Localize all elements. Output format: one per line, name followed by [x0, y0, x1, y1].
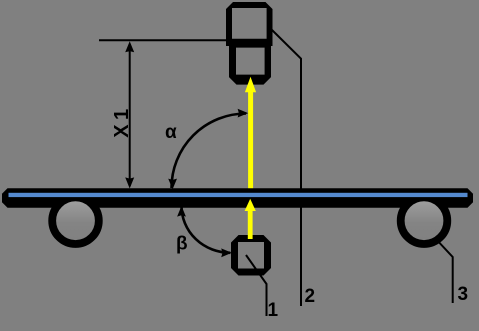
svg-text:X1: X1: [111, 104, 133, 137]
right roller: [401, 197, 448, 244]
arc alpha arrowheads: [168, 109, 248, 190]
dimension reference line (top, to tool shoulder): [99, 39, 229, 41]
tool holder upper body: [226, 2, 273, 46]
svg-text:β: β: [176, 234, 188, 255]
dimension X1 arrow (vertical double-headed): [125, 41, 134, 188]
lower yellow arrow (beam from sensor to bar): [245, 199, 256, 239]
leader line 1 (from sensor square to label 1): [246, 255, 267, 316]
sensor square (detail 1): [231, 235, 271, 276]
leader line 2 (from tool to label 2): [271, 29, 301, 306]
angle arc alpha: [172, 114, 247, 189]
leader line 3 (from right roller to label 3): [435, 238, 453, 303]
svg-text:2: 2: [305, 286, 316, 307]
tool holder lower body (chuck): [229, 40, 271, 85]
angle arc beta: [181, 206, 230, 253]
svg-text:α: α: [165, 122, 177, 143]
bar (workpiece): [2, 188, 473, 207]
svg-text:1: 1: [268, 300, 279, 321]
arc beta arrowheads: [177, 206, 232, 257]
blue stripe on bar: [9, 193, 468, 197]
upper yellow arrow (measuring beam up): [245, 77, 256, 190]
svg-text:3: 3: [458, 284, 469, 305]
